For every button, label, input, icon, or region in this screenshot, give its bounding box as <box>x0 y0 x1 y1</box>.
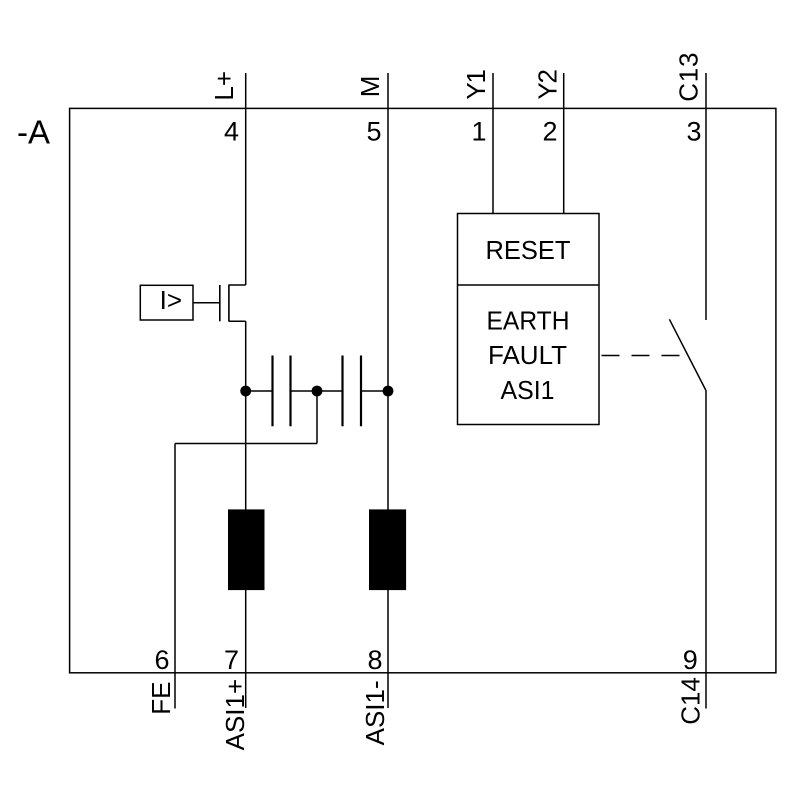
svg-text:ASI1: ASI1 <box>501 375 555 405</box>
svg-text:9: 9 <box>683 645 698 675</box>
svg-text:FAULT: FAULT <box>488 340 567 370</box>
svg-text:3: 3 <box>686 116 701 146</box>
svg-text:8: 8 <box>367 645 382 675</box>
svg-text:M: M <box>355 76 385 98</box>
svg-text:2: 2 <box>542 116 557 146</box>
svg-text:EARTH: EARTH <box>487 305 570 335</box>
svg-text:C13: C13 <box>674 52 704 102</box>
svg-text:C14: C14 <box>676 677 706 725</box>
svg-text:6: 6 <box>154 645 169 675</box>
svg-text:7: 7 <box>224 645 239 675</box>
svg-text:4: 4 <box>224 116 239 146</box>
svg-text:5: 5 <box>366 116 381 146</box>
svg-text:L+: L+ <box>209 71 239 101</box>
svg-text:RESET: RESET <box>486 235 571 265</box>
svg-text:Y2: Y2 <box>532 70 562 100</box>
svg-text:Y1: Y1 <box>461 70 491 100</box>
svg-text:ASI1-: ASI1- <box>360 680 390 745</box>
svg-text:-A: -A <box>17 114 50 151</box>
svg-text:1: 1 <box>471 116 486 146</box>
svg-text:I>: I> <box>160 285 182 315</box>
svg-text:ASI1+: ASI1+ <box>220 679 250 751</box>
svg-text:FE: FE <box>146 682 176 715</box>
